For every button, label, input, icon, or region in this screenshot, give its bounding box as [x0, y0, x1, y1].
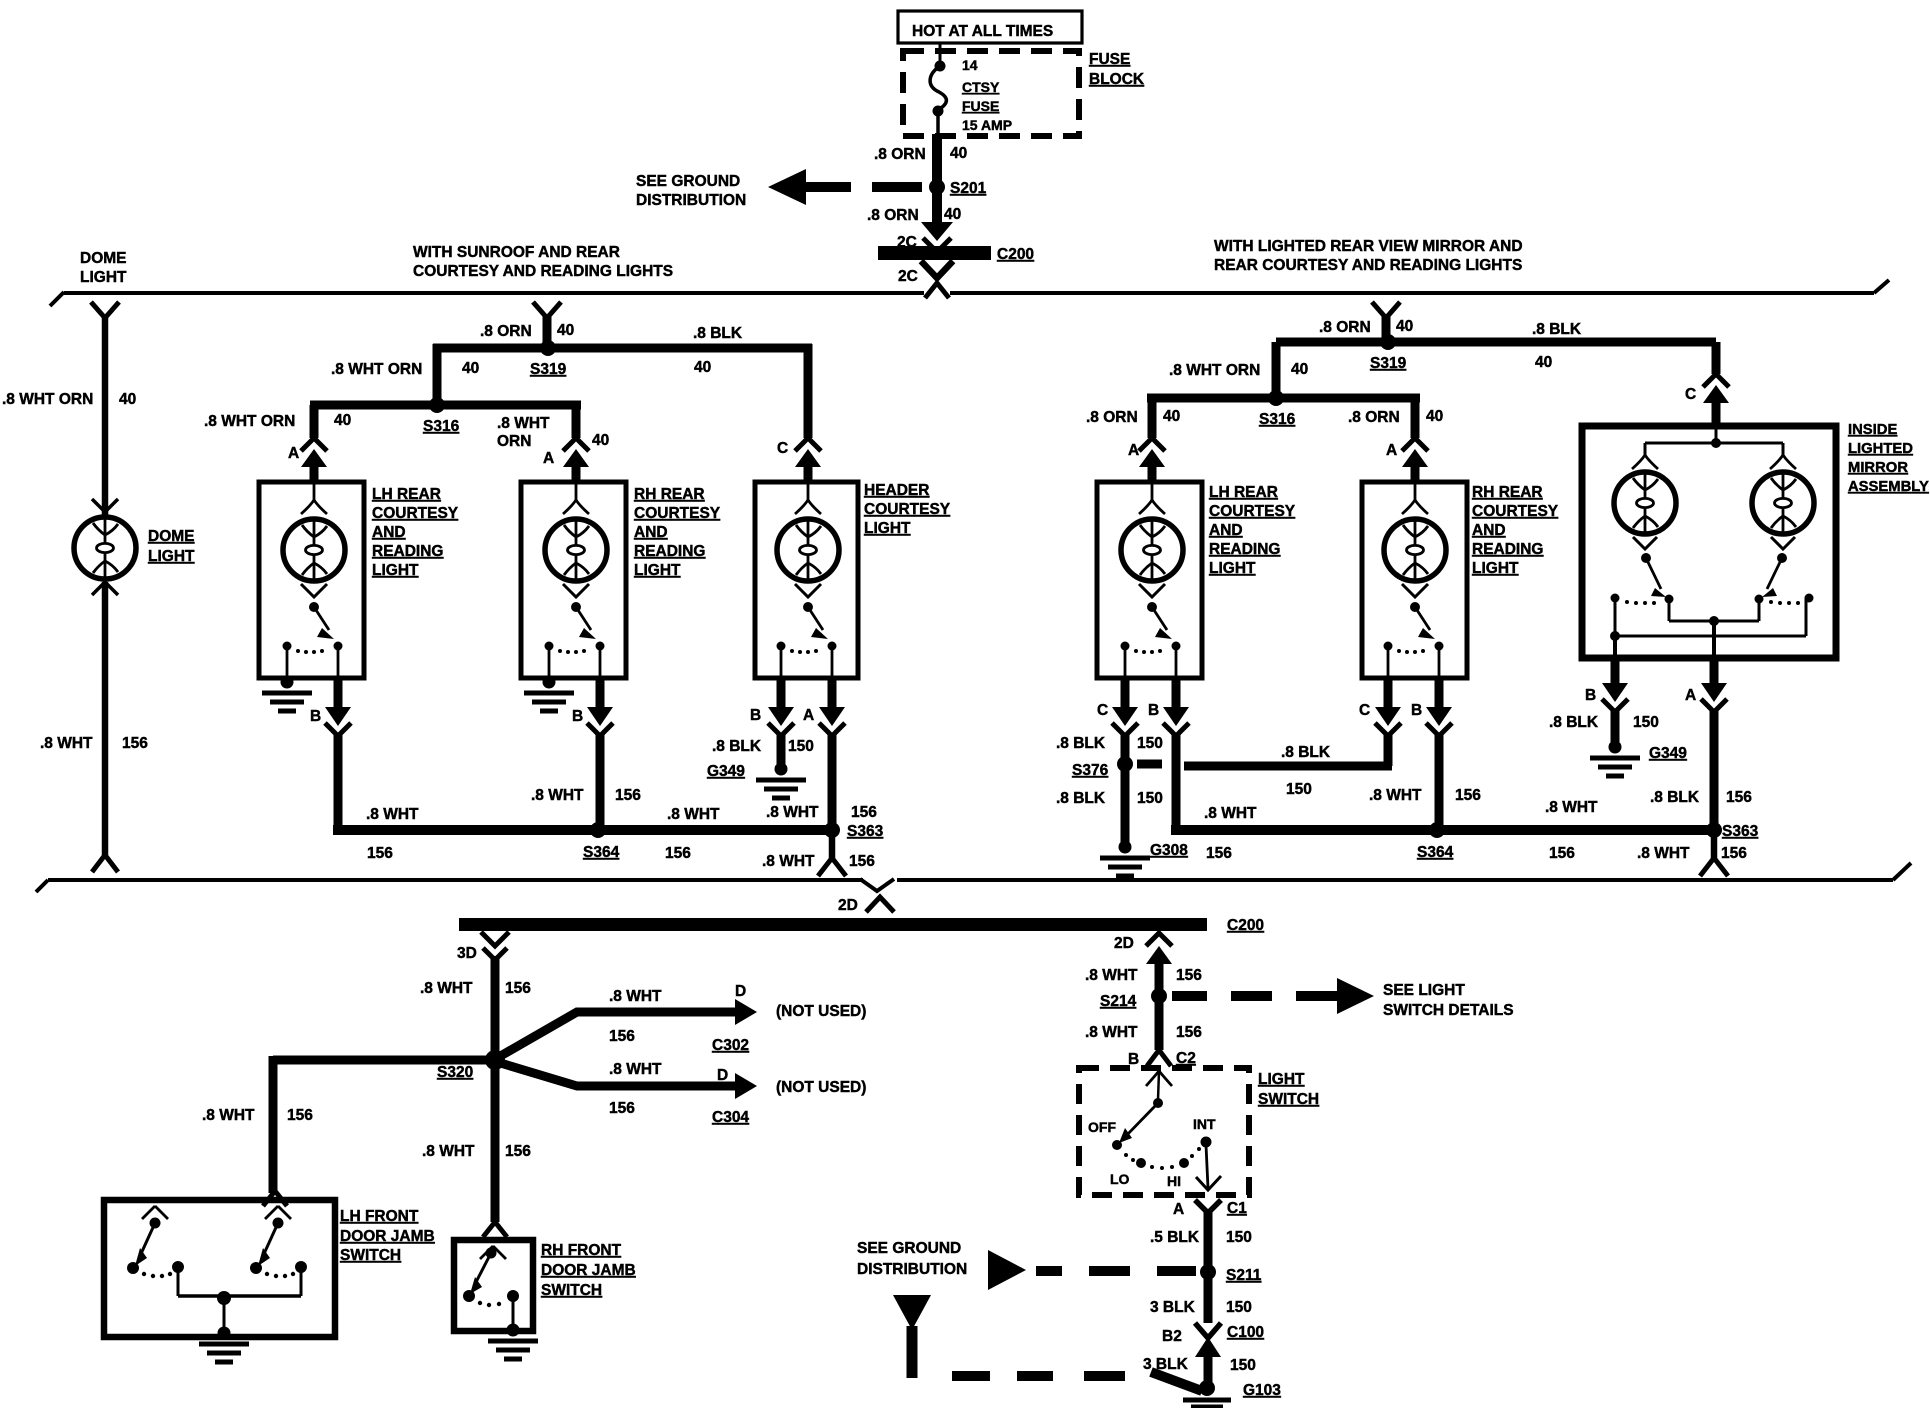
ground G103 [1183, 1380, 1281, 1407]
svg-text:DISTRIBUTION: DISTRIBUTION [857, 1261, 967, 1278]
LH lamp switch [283, 584, 343, 678]
chevron below C200 bar [898, 261, 953, 285]
svg-text:.8 WHT: .8 WHT [609, 1061, 662, 1078]
svg-text:S364: S364 [583, 844, 620, 861]
svg-text:READING: READING [372, 543, 443, 560]
svg-text:READING: READING [634, 543, 705, 560]
svg-text:S363: S363 [847, 823, 884, 840]
svg-text:SWITCH DETAILS: SWITCH DETAILS [1383, 1002, 1514, 1019]
svg-text:(NOT USED): (NOT USED) [776, 1079, 866, 1096]
svg-text:.8 WHT: .8 WHT [202, 1107, 255, 1124]
wire .8 ORN 40 S201 to C200 [867, 193, 961, 224]
ground G349 mirror [1590, 741, 1687, 777]
svg-text:S211: S211 [1226, 1267, 1262, 1284]
svg-text:LO: LO [1110, 1171, 1130, 1187]
svg-text:.8 BLK: .8 BLK [1549, 714, 1599, 731]
splice S316 [423, 397, 460, 435]
svg-text:B2: B2 [1162, 1328, 1182, 1345]
svg-text:156: 156 [665, 845, 691, 862]
svg-text:A: A [543, 450, 554, 467]
svg-text:LIGHT: LIGHT [864, 520, 911, 537]
fuse 14 CTSY FUSE 15 AMP [930, 44, 1012, 136]
connector A out of mirror assembly [1685, 658, 1727, 712]
svg-text:DOME: DOME [80, 250, 127, 267]
svg-text:SEE GROUND: SEE GROUND [636, 173, 740, 190]
svg-text:SEE GROUND: SEE GROUND [857, 1240, 961, 1257]
wire .8 WHT ORN 40 dome [2, 316, 136, 517]
svg-text:HOT AT ALL TIMES: HOT AT ALL TIMES [912, 23, 1053, 40]
svg-text:40: 40 [1535, 354, 1552, 371]
wire .8 BLK 40 corner to mirror assembly [1712, 342, 1721, 374]
svg-text:C: C [1685, 386, 1696, 403]
svg-text:A: A [1128, 442, 1139, 459]
HOT AT ALL TIMES box [898, 11, 1082, 43]
connector 3D out of C200 [457, 932, 509, 962]
LH door jamb switch mechanism 2 [250, 1206, 307, 1278]
LH lamp ground [262, 676, 312, 712]
svg-text:156: 156 [1726, 789, 1752, 806]
svg-text:156: 156 [851, 804, 877, 821]
connector Y sunroof circuit top [533, 302, 561, 318]
svg-text:COURTESY: COURTESY [372, 505, 459, 522]
splice S319 [530, 340, 567, 378]
svg-text:40: 40 [1396, 318, 1413, 335]
svg-text:150: 150 [1137, 735, 1163, 752]
see ground distribution arrow (top) [636, 169, 922, 209]
svg-text:.8 BLK: .8 BLK [1056, 735, 1106, 752]
svg-text:C: C [1097, 702, 1108, 719]
ground G349 [707, 763, 806, 799]
wire .8 WHT 156 S214 to C2 [1085, 1000, 1202, 1050]
RH lamp switch right [1384, 584, 1444, 678]
svg-text:LIGHT: LIGHT [80, 269, 127, 286]
connector C out of RH lamp right [1359, 678, 1401, 736]
wire .8 WHT 156 S320 to RH door jamb [422, 1064, 531, 1222]
svg-text:G103: G103 [1243, 1382, 1281, 1399]
svg-text:156: 156 [1721, 845, 1747, 862]
svg-text:DOME: DOME [148, 528, 195, 545]
svg-text:READING: READING [1472, 541, 1543, 558]
svg-text:LIGHT: LIGHT [1472, 560, 1519, 577]
see ground distribution (bottom) text [857, 1240, 967, 1278]
mirror left lamp switch [1611, 537, 1674, 605]
connector A into LH rear lamp right [1128, 438, 1165, 484]
LH front door jamb switch box [104, 1200, 335, 1337]
svg-text:.8 WHT: .8 WHT [667, 806, 720, 823]
wire .8 WHT 156 C200 to S320 [420, 956, 531, 1060]
wire .8 WHT 156 to C304 (not used) [497, 1061, 866, 1126]
connector C200 bar (top) [878, 246, 1034, 263]
svg-text:40: 40 [1291, 361, 1308, 378]
svg-text:OFF: OFF [1088, 1119, 1116, 1135]
see ground distribution arrow to S211 [988, 1250, 1196, 1290]
svg-text:MIRROR: MIRROR [1848, 460, 1908, 476]
light switch dashed box [1079, 1068, 1249, 1195]
svg-text:B: B [310, 708, 321, 725]
connector C1 out of light switch [1173, 1200, 1247, 1218]
RH door jamb switch mechanism [463, 1246, 519, 1330]
chevron above dome lamp [92, 499, 118, 512]
light switch label [1258, 1071, 1319, 1108]
wire .8 WHT 156 to C302 (not used) [497, 983, 866, 1058]
connector C out of LH lamp right [1097, 678, 1138, 736]
RH front door jamb switch box [454, 1240, 533, 1331]
svg-text:.8 ORN: .8 ORN [874, 146, 926, 163]
lower section boundary line [36, 863, 1911, 914]
svg-text:HI: HI [1167, 1173, 1181, 1189]
wire .8 ORN 40 to LH rear lamp right [1086, 398, 1180, 438]
title right: WITH LIGHTED REAR VIEW MIRROR [1214, 238, 1523, 274]
svg-text:3 BLK: 3 BLK [1143, 1356, 1189, 1373]
svg-text:G308: G308 [1150, 842, 1188, 859]
connector C100 [1162, 1323, 1264, 1345]
wire .8 WHT 156 C200 to S214 [1085, 961, 1202, 996]
svg-text:.8 WHT: .8 WHT [1085, 1024, 1138, 1041]
svg-text:C2: C2 [1176, 1050, 1196, 1067]
dome light corner label [80, 250, 127, 286]
svg-text:A: A [1173, 1201, 1184, 1218]
connector C into header lamp [777, 438, 821, 484]
svg-text:AND: AND [634, 524, 668, 541]
svg-text:S319: S319 [530, 361, 567, 378]
svg-text:.8 ORN: .8 ORN [480, 323, 532, 340]
svg-text:DISTRIBUTION: DISTRIBUTION [636, 192, 746, 209]
svg-text:A: A [1685, 687, 1696, 704]
svg-text:.8 WHT: .8 WHT [40, 735, 93, 752]
svg-text:COURTESY AND READING LIGHTS: COURTESY AND READING LIGHTS [413, 263, 673, 280]
light switch internals [1088, 1071, 1221, 1190]
svg-text:.8 WHT: .8 WHT [1085, 967, 1138, 984]
connector Y S363 right to boundary [1700, 858, 1728, 876]
see light switch details dashed arrow [1172, 978, 1514, 1019]
splice S364 [583, 822, 620, 861]
svg-text:.8 ORN: .8 ORN [1319, 319, 1371, 336]
chevron below dome lamp [92, 582, 118, 595]
svg-text:.8 WHT: .8 WHT [531, 787, 584, 804]
svg-text:.8 WHT: .8 WHT [420, 980, 473, 997]
svg-text:LH REAR: LH REAR [372, 486, 441, 503]
header courtesy light label [864, 482, 951, 537]
wire .8 ORN 40 to S319 [480, 316, 574, 344]
mirror right lamp switch [1755, 537, 1814, 605]
svg-text:BLOCK: BLOCK [1089, 71, 1145, 88]
svg-text:RH REAR: RH REAR [634, 486, 705, 503]
svg-text:40: 40 [592, 432, 609, 449]
svg-text:150: 150 [788, 738, 814, 755]
svg-text:REAR COURTESY AND READING LIGH: REAR COURTESY AND READING LIGHTS [1214, 257, 1522, 274]
svg-text:S320: S320 [437, 1064, 473, 1081]
svg-text:156: 156 [367, 845, 393, 862]
splice S376 [1072, 756, 1162, 779]
wire .8 ORN 40 to RH rear lamp right [1348, 398, 1443, 438]
LH lamp internals right [1139, 484, 1165, 514]
svg-text:AND: AND [1209, 522, 1243, 539]
svg-text:AND: AND [1472, 522, 1506, 539]
svg-text:156: 156 [1206, 845, 1232, 862]
svg-text:LH REAR: LH REAR [1209, 484, 1278, 501]
splice S211 [1200, 1264, 1262, 1284]
splice S364 right [1417, 822, 1454, 861]
LH rear lamp label right [1209, 484, 1296, 577]
svg-text:S319: S319 [1370, 355, 1407, 372]
wire bus at S316 right [1147, 394, 1420, 403]
svg-text:FUSE: FUSE [962, 98, 999, 114]
svg-text:.8 WHT: .8 WHT [366, 806, 419, 823]
LH rear courtesy light box right [1097, 482, 1202, 678]
svg-text:COURTESY: COURTESY [634, 505, 721, 522]
svg-text:2D: 2D [838, 897, 858, 914]
svg-text:C1: C1 [1227, 1200, 1247, 1217]
wire .8 WHT 156 S364 to S363 right [1545, 799, 1598, 862]
mirror right lamp bulb [1752, 472, 1814, 534]
svg-text:INSIDE: INSIDE [1848, 422, 1897, 438]
connector C200 bar (bottom) [459, 917, 1264, 934]
RH lamp internals [563, 484, 589, 514]
wire .8 ORN 40 fuse to S201 [874, 134, 967, 182]
svg-text:40: 40 [694, 359, 711, 376]
svg-text:A: A [288, 445, 299, 462]
connector B out of RH lamp right [1411, 678, 1452, 736]
svg-text:S201: S201 [950, 180, 987, 197]
svg-text:SWITCH: SWITCH [1258, 1091, 1319, 1108]
svg-text:.8 WHT: .8 WHT [1637, 845, 1690, 862]
wire .8 WHT 156 LH lamp B right to S364 [1171, 734, 1718, 862]
wire bus at S319 right [1276, 338, 1716, 347]
LH door jamb switch label [340, 1208, 435, 1264]
svg-text:RH REAR: RH REAR [1472, 484, 1543, 501]
wire .8 WHT 156 RH lamp B to S364 right [1369, 734, 1481, 830]
wire .8 BLK 156 mirror A to S363 right [1650, 710, 1752, 835]
svg-text:SEE LIGHT: SEE LIGHT [1383, 982, 1465, 999]
wire .5 BLK 150 C1 to S211 [1150, 1211, 1252, 1272]
connector Y into LH door jamb switch [263, 1191, 287, 1206]
svg-text:C200: C200 [997, 246, 1034, 263]
svg-text:156: 156 [505, 980, 531, 997]
svg-text:LIGHT: LIGHT [148, 548, 195, 565]
LH rear courtesy and reading light box [259, 482, 364, 678]
inside lighted mirror assembly box [1582, 426, 1836, 658]
svg-text:D: D [717, 1067, 728, 1084]
svg-text:150: 150 [1226, 1229, 1252, 1246]
svg-text:.8 WHT ORN: .8 WHT ORN [331, 361, 422, 378]
svg-text:C: C [777, 440, 788, 457]
svg-text:40: 40 [557, 322, 574, 339]
svg-text:G349: G349 [1649, 745, 1687, 762]
svg-text:150: 150 [1230, 1357, 1256, 1374]
wire 3 BLK 150 C100 to G103 [1143, 1337, 1256, 1386]
wire .8 BLK 150 S376 to G308 [1056, 768, 1163, 843]
svg-text:156: 156 [1176, 1024, 1202, 1041]
svg-text:156: 156 [849, 853, 875, 870]
connector B out of LH lamp right [1148, 678, 1189, 736]
svg-text:40: 40 [950, 145, 967, 162]
svg-text:COURTESY: COURTESY [1209, 503, 1296, 520]
wire .8 BLK 40 corner to header lamp [804, 344, 813, 438]
svg-text:150: 150 [1286, 781, 1312, 798]
svg-text:40: 40 [944, 206, 961, 223]
svg-text:S316: S316 [1259, 411, 1296, 428]
svg-text:LIGHTED: LIGHTED [1848, 441, 1913, 457]
mirror assembly label [1848, 422, 1929, 495]
ground G308 [1100, 841, 1188, 877]
header lamp internals [795, 484, 821, 514]
wire .8 WHT ORN 40 to LH lamp [204, 405, 351, 438]
svg-text:2D: 2D [1114, 935, 1134, 952]
svg-text:15 AMP: 15 AMP [962, 117, 1012, 133]
svg-text:.8 WHT ORN: .8 WHT ORN [204, 413, 295, 430]
svg-text:ORN: ORN [497, 433, 531, 450]
mirror internal A rail [1669, 599, 1759, 658]
svg-text:ASSEMBLY: ASSEMBLY [1848, 479, 1929, 495]
connector B out of header lamp [750, 678, 794, 736]
wire .8 WHT 156 dome [40, 582, 148, 855]
svg-text:COURTESY: COURTESY [1472, 503, 1559, 520]
wire .8 BLK 40 to mirror assembly [1532, 321, 1582, 371]
splice S316 right [1259, 390, 1296, 428]
svg-text:156: 156 [609, 1028, 635, 1045]
svg-text:156: 156 [287, 1107, 313, 1124]
connector A into LH rear lamp [288, 438, 327, 484]
svg-text:.8 BLK: .8 BLK [693, 325, 743, 342]
svg-text:RH FRONT: RH FRONT [541, 1242, 622, 1259]
svg-text:.8 WHT: .8 WHT [762, 853, 815, 870]
svg-text:S376: S376 [1072, 762, 1109, 779]
RH rear lamp label [634, 486, 721, 579]
splice S320 [437, 1050, 505, 1081]
RH lamp internals right [1402, 484, 1428, 514]
svg-text:AND: AND [372, 524, 406, 541]
svg-text:READING: READING [1209, 541, 1280, 558]
svg-text:.8 BLK: .8 BLK [1650, 789, 1700, 806]
svg-text:156: 156 [609, 1100, 635, 1117]
svg-text:LIGHT: LIGHT [1209, 560, 1256, 577]
wire .8 BLK 40 to header light [693, 325, 743, 376]
wire .8 WHT 156 header lamp to S363 [766, 734, 877, 835]
svg-text:156: 156 [1455, 787, 1481, 804]
svg-text:C304: C304 [712, 1109, 749, 1126]
dome light label [148, 528, 195, 565]
wire .8 WHT ORN 40 S319 to S316 right [1169, 342, 1308, 398]
svg-text:.8 WHT: .8 WHT [1369, 787, 1422, 804]
svg-text:(NOT USED): (NOT USED) [776, 1003, 866, 1020]
svg-text:.8 BLK: .8 BLK [1281, 744, 1331, 761]
svg-text:.8 WHT: .8 WHT [422, 1143, 475, 1160]
svg-text:COURTESY: COURTESY [864, 501, 951, 518]
svg-text:.8 WHT: .8 WHT [497, 415, 550, 432]
svg-text:.8 WHT: .8 WHT [766, 804, 819, 821]
svg-text:B: B [1585, 687, 1596, 704]
see ground distribution dashed run to G103 [893, 1295, 1202, 1391]
header lamp bulb [777, 519, 839, 581]
splice S201 [929, 179, 987, 197]
connector A into RH rear lamp [543, 438, 589, 484]
connector B out of mirror assembly [1585, 658, 1628, 712]
title left: WITH SUNROOF [413, 244, 673, 280]
RH rear courtesy and reading light box [521, 482, 626, 678]
svg-text:DOOR JAMB: DOOR JAMB [340, 1228, 435, 1245]
RH lamp bulb right [1384, 519, 1446, 581]
dome light connector Y (top) [91, 302, 119, 318]
svg-text:3 BLK: 3 BLK [1150, 1299, 1196, 1316]
wire bus at S319 [433, 344, 812, 353]
LH door jamb internal ground wiring [178, 1267, 301, 1332]
svg-text:B: B [1148, 702, 1159, 719]
splice S214 [1100, 988, 1167, 1010]
dome light connector Y (bottom) [92, 855, 118, 872]
svg-text:150: 150 [1226, 1299, 1252, 1316]
mirror left lamp bulb [1614, 472, 1676, 534]
wire .8 WHT 156 S363 to boundary [762, 835, 875, 870]
fuse block label [1089, 51, 1145, 88]
svg-text:SWITCH: SWITCH [541, 1282, 602, 1299]
svg-text:DOOR JAMB: DOOR JAMB [541, 1262, 636, 1279]
svg-text:14: 14 [962, 57, 978, 73]
svg-text:C200: C200 [1227, 917, 1264, 934]
connector A into RH rear lamp right [1386, 438, 1428, 484]
header lamp switch [777, 584, 837, 678]
svg-text:B: B [1411, 702, 1422, 719]
wire .8 WHT ORN 40 to RH lamp [497, 405, 609, 450]
svg-text:S364: S364 [1417, 844, 1454, 861]
svg-text:C302: C302 [712, 1037, 749, 1054]
svg-text:.8 WHT ORN: .8 WHT ORN [1169, 362, 1260, 379]
svg-text:.8 BLK: .8 BLK [1532, 321, 1582, 338]
svg-text:.8 BLK: .8 BLK [712, 738, 762, 755]
wire .8 WHT 156 LH lamp to S364 [333, 734, 836, 862]
upper section boundary line [50, 280, 1889, 306]
svg-text:156: 156 [1549, 845, 1575, 862]
splice S363 right [1706, 822, 1759, 840]
svg-text:LIGHT: LIGHT [634, 562, 681, 579]
svg-text:40: 40 [462, 360, 479, 377]
svg-text:.8 WHT ORN: .8 WHT ORN [2, 391, 93, 408]
RH door jamb switch label [541, 1242, 636, 1299]
LH lamp switch right [1121, 584, 1181, 678]
LH rear lamp label [372, 486, 459, 579]
LH lamp internals [301, 484, 327, 514]
svg-text:C: C [1359, 702, 1370, 719]
svg-text:WITH SUNROOF AND REAR: WITH SUNROOF AND REAR [413, 244, 620, 261]
connector C2 into light switch [1128, 1050, 1196, 1068]
svg-text:.8 ORN: .8 ORN [1086, 409, 1138, 426]
RH rear courtesy light box right [1362, 482, 1467, 678]
wire .8 WHT 156 S364 to S363 [665, 806, 720, 862]
svg-text:156: 156 [122, 735, 148, 752]
wire .8 BLK 150 to S376 [1056, 734, 1163, 764]
svg-text:C100: C100 [1227, 1324, 1264, 1341]
connector B out of LH lamp [310, 678, 351, 736]
wire .8 ORN 40 to S319 right [1319, 316, 1413, 338]
dome light lamp [74, 517, 136, 579]
connector Y into RH door jamb switch [483, 1222, 507, 1237]
wire 3 BLK 150 S211 to C100 [1150, 1276, 1252, 1323]
mirror internal B rail [1610, 598, 1806, 658]
connector arrow into C200 (2C) [897, 222, 953, 252]
splice S319 right [1370, 334, 1407, 372]
svg-text:3D: 3D [457, 945, 477, 962]
RH door jamb ground [488, 1324, 538, 1360]
svg-text:.8 WHT: .8 WHT [609, 988, 662, 1005]
svg-text:A: A [803, 707, 814, 724]
svg-text:B: B [572, 708, 583, 725]
svg-text:150: 150 [1137, 790, 1163, 807]
svg-text:S363: S363 [1722, 823, 1759, 840]
svg-text:156: 156 [1176, 967, 1202, 984]
svg-text:.8 ORN: .8 ORN [867, 207, 919, 224]
wire bus at S316 [310, 401, 581, 410]
svg-text:LIGHT: LIGHT [1258, 1071, 1305, 1088]
svg-text:WITH LIGHTED REAR VIEW MIRROR: WITH LIGHTED REAR VIEW MIRROR AND [1214, 238, 1523, 255]
